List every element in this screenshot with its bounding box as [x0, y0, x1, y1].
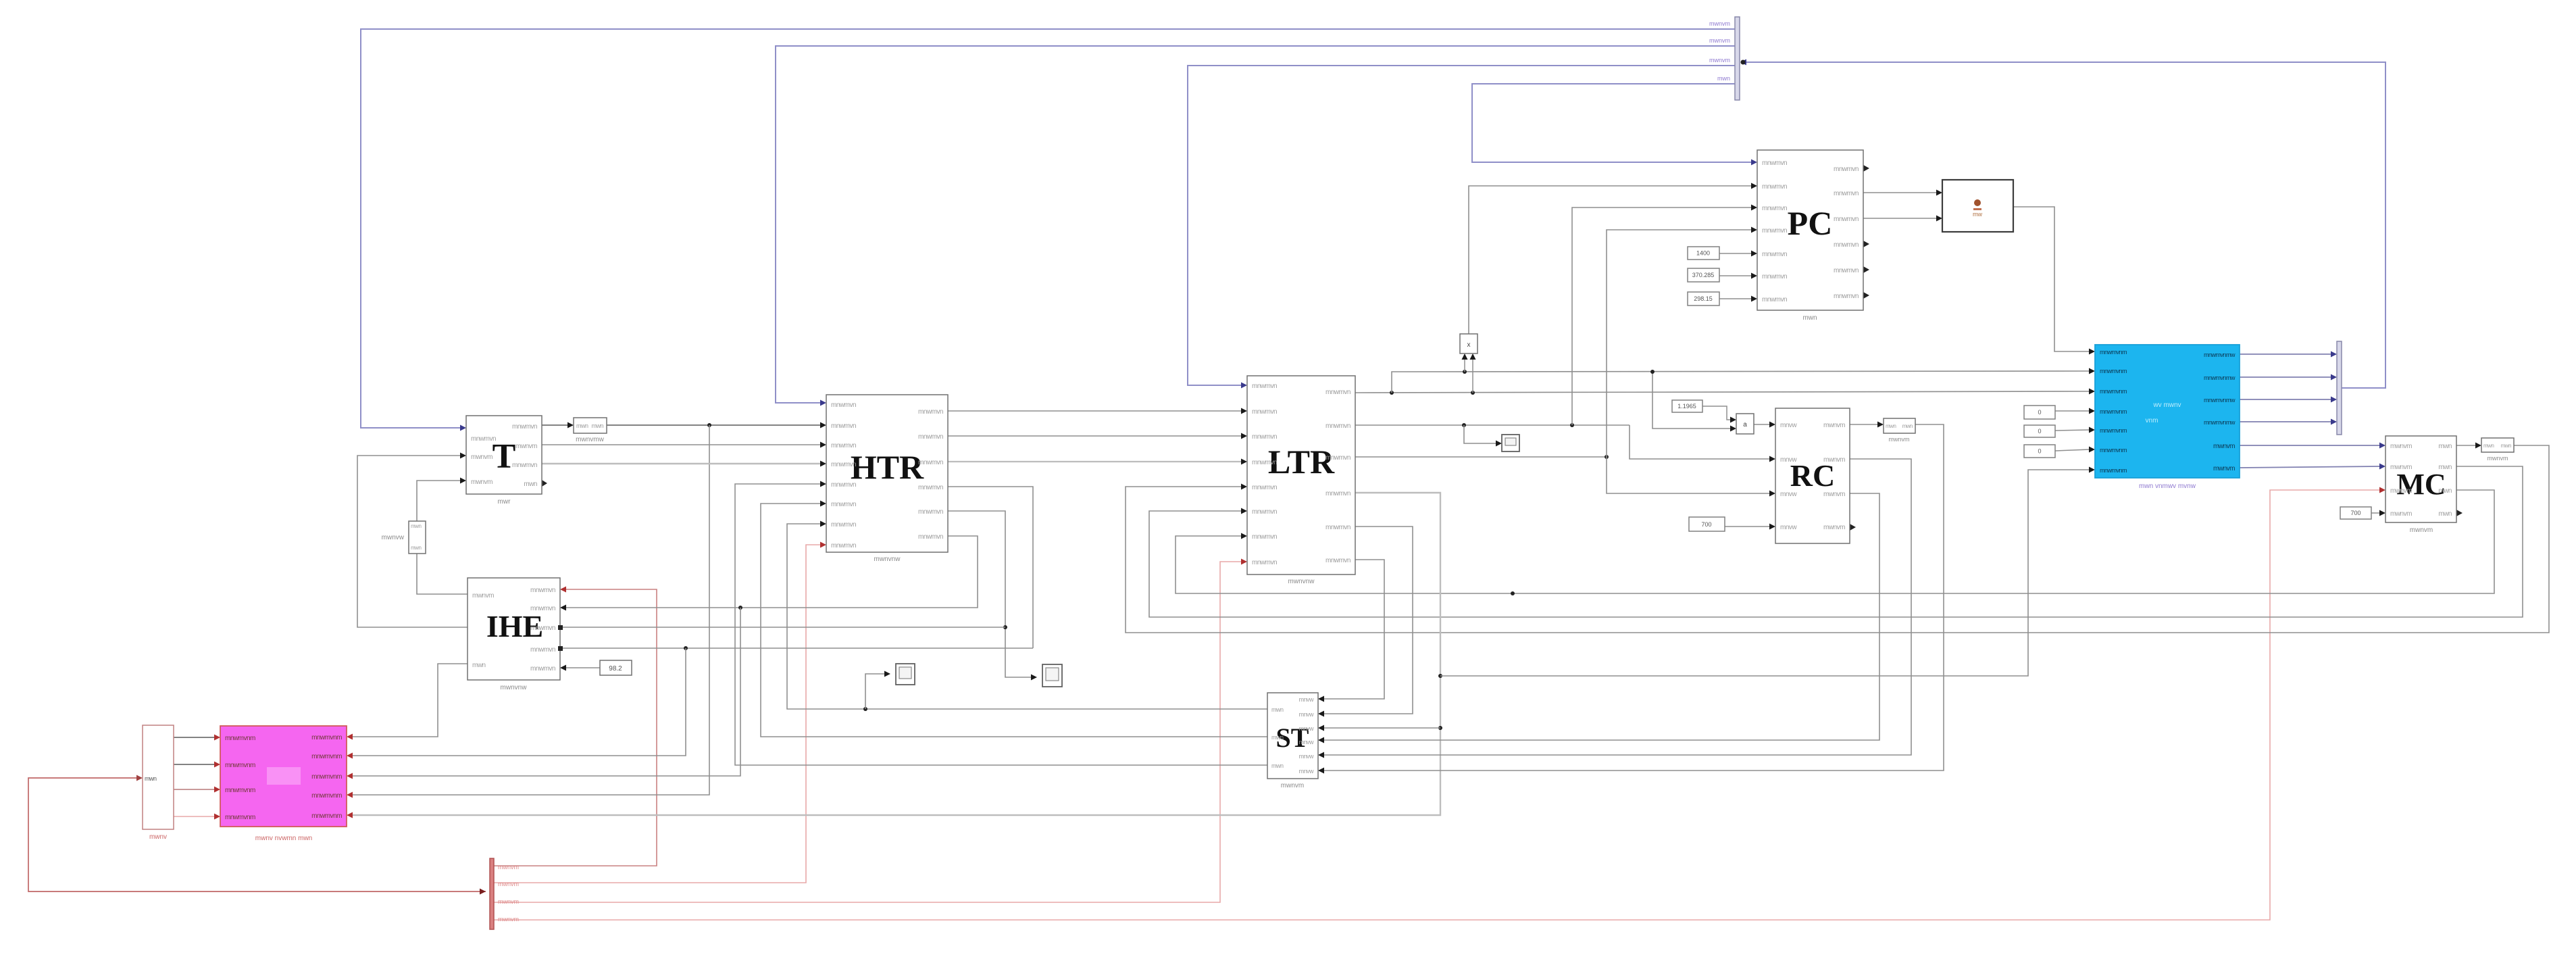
svg-text:mwnvm: mwnvm: [1709, 20, 1730, 27]
svg-text:MC: MC: [2396, 468, 2446, 501]
svg-text:mnwmvn: mnwmvn: [1762, 296, 1787, 303]
svg-text:mnwmvn: mnwmvn: [918, 508, 943, 516]
svg-text:mnwmvn: mnwmvn: [530, 625, 555, 632]
svg-text:mwnvm: mwnvm: [498, 864, 519, 871]
svg-text:vnm: vnm: [2146, 417, 2158, 424]
svg-text:mwn: mwn: [2438, 510, 2452, 518]
svg-text:mnvw: mnvw: [1298, 753, 1314, 760]
svg-text:mwnvm: mwnvm: [515, 443, 537, 450]
svg-text:mwnvm: mwnvm: [2410, 527, 2433, 534]
svg-text:mwn: mwn: [2483, 443, 2494, 449]
svg-text:mwn: mwn: [1802, 314, 1817, 322]
svg-text:mnvw: mnvw: [1298, 696, 1314, 703]
svg-text:mnwmvn: mnwmvn: [512, 423, 537, 431]
svg-text:298.15: 298.15: [1694, 295, 1713, 302]
svg-text:mwnvm: mwnvm: [471, 454, 493, 461]
svg-text:mnwmvn: mnwmvn: [1325, 524, 1350, 531]
svg-text:mwn: mwn: [1271, 762, 1284, 769]
svg-text:mnwmvn: mnwmvn: [1325, 389, 1350, 396]
svg-text:mnwmvn: mnwmvn: [1252, 508, 1277, 516]
svg-text:mnwmvn: mnwmvn: [1834, 241, 1859, 249]
svg-text:mnwmvn: mnwmvn: [918, 433, 943, 441]
svg-text:0: 0: [2038, 448, 2041, 455]
svg-text:mnwmvn: mnwmvn: [831, 442, 856, 449]
svg-text:mnwmvn: mnwmvn: [1252, 408, 1277, 416]
svg-text:mwnvnw: mwnvnw: [501, 684, 528, 691]
svg-text:mnwmvn: mnwmvn: [1834, 190, 1859, 197]
svg-text:mw: mw: [1973, 211, 1982, 218]
svg-text:mwnvm: mwnvm: [472, 592, 494, 600]
svg-text:mnvw: mnvw: [1298, 739, 1314, 746]
svg-text:mnwmvn: mnwmvn: [918, 408, 943, 416]
svg-text:mnwmvn: mnwmvn: [1252, 433, 1277, 441]
svg-text:0: 0: [2038, 428, 2041, 435]
svg-text:mwn: mwn: [591, 422, 603, 429]
svg-text:mnvw: mnvw: [1780, 491, 1797, 498]
svg-text:mnwmvnmw: mnwmvnmw: [2204, 397, 2236, 404]
svg-text:mnwmvn: mnwmvn: [1252, 559, 1277, 566]
svg-text:mnwmvnm: mnwmvnm: [225, 814, 255, 821]
svg-text:mwnvm: mwnvm: [1823, 422, 1845, 429]
svg-text:mnwmvnm: mnwmvnm: [225, 735, 255, 742]
svg-text:mwn: mwn: [1902, 423, 1913, 429]
svg-text:mwn: mwn: [411, 545, 421, 551]
svg-text:mnwmvn: mnwmvn: [1762, 160, 1787, 167]
svg-text:mwnvnw: mwnvnw: [1288, 578, 1315, 585]
svg-text:wv mwnv: wv mwnv: [2152, 401, 2181, 409]
svg-text:mwn: mwn: [1271, 734, 1284, 741]
svg-text:mnwmvnmw: mnwmvnmw: [2204, 374, 2236, 381]
svg-text:mnwmvnm: mnwmvnm: [225, 762, 255, 769]
svg-text:mwnvm: mwnvm: [2213, 443, 2235, 450]
svg-text:mnwmvn: mnwmvn: [831, 481, 856, 489]
svg-text:mnwmvn: mnwmvn: [1762, 251, 1787, 258]
svg-text:mwnvnw: mwnvnw: [874, 556, 901, 563]
svg-text:mwr: mwr: [498, 498, 511, 506]
svg-text:mnwmvn: mnwmvn: [1252, 484, 1277, 491]
svg-text:mnwmvnm: mnwmvnm: [311, 734, 342, 741]
svg-text:mnwmvnm: mnwmvnm: [2100, 427, 2127, 434]
svg-text:mwnvm: mwnvm: [2390, 487, 2412, 495]
svg-text:HTR: HTR: [851, 448, 924, 486]
svg-text:mnwmvn: mnwmvn: [1252, 459, 1277, 466]
svg-text:1.1965: 1.1965: [1677, 403, 1696, 410]
svg-text:a: a: [1743, 421, 1747, 429]
svg-text:mwn: mwn: [1886, 423, 1896, 429]
svg-text:mwn: mwn: [1271, 706, 1284, 713]
svg-text:mnwmvn: mnwmvn: [1325, 422, 1350, 430]
svg-text:mnwmvn: mnwmvn: [831, 422, 856, 430]
svg-text:mnwmvn: mnwmvn: [1325, 557, 1350, 564]
svg-text:mwnvm: mwnvm: [1889, 436, 1910, 443]
svg-text:mnwmvn: mnwmvn: [471, 435, 496, 443]
svg-text:mnwmvn: mnwmvn: [1762, 183, 1787, 191]
svg-text:mwnvmw: mwnvmw: [576, 436, 604, 443]
svg-text:mnvw: mnvw: [1298, 725, 1314, 732]
svg-text:mnwmvn: mnwmvn: [512, 462, 537, 469]
svg-text:mnwmvn: mnwmvn: [831, 461, 856, 468]
svg-text:0: 0: [2038, 409, 2041, 416]
svg-text:mwn: mwn: [2501, 443, 2511, 449]
svg-text:mnvw: mnvw: [1298, 711, 1314, 718]
svg-text:mwnvm: mwnvm: [2213, 465, 2235, 472]
svg-text:mnwmvnm: mnwmvnm: [311, 773, 342, 781]
svg-text:mnwmvn: mnwmvn: [918, 484, 943, 491]
svg-text:mwnvm: mwnvm: [471, 479, 493, 486]
svg-text:mnwmvn: mnwmvn: [1325, 490, 1350, 497]
svg-text:mnwmvn: mnwmvn: [1762, 227, 1787, 235]
svg-text:mwnvm: mwnvm: [2487, 455, 2508, 462]
svg-text:LTR: LTR: [1268, 443, 1335, 481]
svg-text:mnwmvnm: mnwmvnm: [225, 787, 255, 794]
svg-text:mnwmvn: mnwmvn: [1762, 273, 1787, 280]
svg-text:mnwmvn: mnwmvn: [1834, 293, 1859, 300]
svg-text:mwnv: mwnv: [149, 833, 167, 841]
svg-text:mnwmvn: mnwmvn: [530, 646, 555, 654]
svg-text:mnwmvn: mnwmvn: [1762, 205, 1787, 212]
svg-text:mwnvm: mwnvm: [1709, 37, 1730, 44]
svg-text:mnvw: mnvw: [1780, 456, 1797, 464]
svg-text:mwnvm: mwnvm: [498, 881, 519, 887]
svg-text:PC: PC: [1788, 204, 1833, 242]
svg-text:mnwmvn: mnwmvn: [831, 542, 856, 549]
svg-text:mnwmvnm: mnwmvnm: [2100, 447, 2127, 454]
svg-text:mnwmvn: mnwmvn: [530, 587, 555, 594]
svg-text:mnwmvnm: mnwmvnm: [2100, 349, 2127, 356]
svg-text:mwn: mwn: [524, 481, 537, 488]
svg-text:mwnvm: mwnvm: [1709, 57, 1730, 64]
svg-text:mwn: mwn: [145, 775, 157, 782]
svg-text:mwn: mwn: [472, 662, 486, 669]
svg-text:mnwmvnm: mnwmvnm: [2100, 408, 2127, 415]
svg-text:mnwmvnm: mnwmvnm: [2100, 388, 2127, 395]
svg-text:mwnvm: mwnvm: [2390, 464, 2412, 471]
svg-text:mnwmvnmw: mnwmvnmw: [2204, 351, 2236, 358]
svg-text:mnwmvnmw: mnwmvnmw: [2204, 419, 2236, 426]
svg-text:mwn: mwn: [2438, 487, 2452, 495]
svg-text:mnwmvn: mnwmvn: [1834, 267, 1859, 274]
svg-text:mwn: mwn: [576, 422, 588, 429]
svg-text:98.2: 98.2: [609, 665, 622, 673]
svg-text:mwn: mwn: [1717, 75, 1730, 82]
svg-text:mnwmvnm: mnwmvnm: [311, 812, 342, 820]
svg-text:mnwmvn: mnwmvn: [1252, 383, 1277, 390]
svg-text:700: 700: [1701, 521, 1711, 528]
svg-text:mwnvm: mwnvm: [2390, 443, 2412, 450]
svg-text:mwn: mwn: [2438, 464, 2452, 471]
svg-text:mwn: mwn: [2438, 443, 2452, 450]
svg-text:mnwmvn: mnwmvn: [831, 521, 856, 529]
svg-text:mnwmvn: mnwmvn: [1252, 533, 1277, 541]
svg-text:mnwmvn: mnwmvn: [918, 459, 943, 466]
svg-text:mnwmvnm: mnwmvnm: [311, 792, 342, 800]
svg-text:mnwmvn: mnwmvn: [831, 401, 856, 409]
svg-text:370.285: 370.285: [1692, 272, 1715, 278]
svg-text:1400: 1400: [1696, 250, 1710, 257]
svg-text:mnwmvn: mnwmvn: [530, 665, 555, 673]
svg-text:mwnvm: mwnvm: [1823, 456, 1845, 464]
svg-text:mnvw: mnvw: [1780, 422, 1797, 429]
svg-text:T: T: [493, 437, 516, 476]
svg-text:mnvw: mnvw: [1780, 524, 1797, 531]
svg-text:mwnv nvwmn mwn: mwnv nvwmn mwn: [255, 835, 312, 842]
svg-text:mnwmvnm: mnwmvnm: [2100, 368, 2127, 374]
svg-text:mwnvm: mwnvm: [1823, 491, 1845, 498]
svg-text:mnvw: mnvw: [1298, 768, 1314, 775]
svg-text:mnwmvn: mnwmvn: [1834, 216, 1859, 223]
svg-text:mnwmvnm: mnwmvnm: [311, 753, 342, 760]
svg-text:mwnvm: mwnvm: [2390, 510, 2412, 518]
svg-text:mnwmvn: mnwmvn: [831, 501, 856, 508]
svg-text:mnwmvn: mnwmvn: [918, 533, 943, 541]
svg-text:mwn vnmwv mvnw: mwn vnmwv mvnw: [2139, 483, 2196, 490]
svg-text:mwn: mwn: [411, 523, 421, 529]
svg-text:mwnvm: mwnvm: [1281, 782, 1304, 789]
svg-text:mnwmvn: mnwmvn: [1325, 454, 1350, 462]
svg-text:x: x: [1467, 341, 1471, 349]
svg-text:mwnvm: mwnvm: [498, 898, 519, 905]
svg-text:mnwmvn: mnwmvn: [530, 605, 555, 612]
svg-text:mwnvm: mwnvm: [1823, 524, 1845, 531]
svg-text:mnwmvnm: mnwmvnm: [2100, 467, 2127, 474]
svg-text:mwnvw: mwnvw: [382, 534, 405, 541]
svg-text:mwnvm: mwnvm: [498, 916, 519, 923]
svg-text:mnwmvn: mnwmvn: [1834, 166, 1859, 173]
svg-text:700: 700: [2350, 510, 2360, 516]
